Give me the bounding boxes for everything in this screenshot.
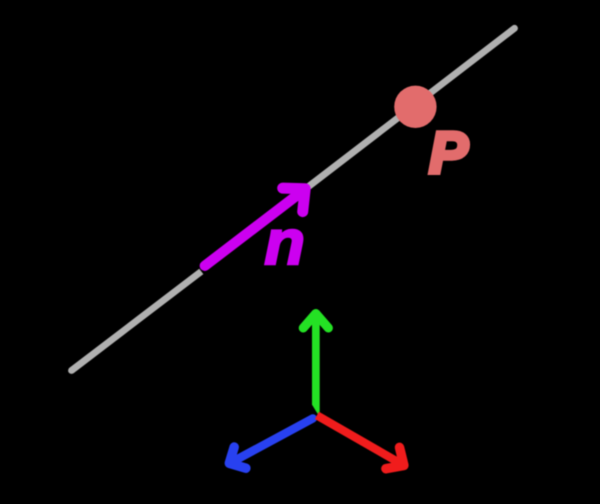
svg-text:P: P bbox=[429, 120, 468, 185]
svg-text:n: n bbox=[264, 208, 305, 278]
